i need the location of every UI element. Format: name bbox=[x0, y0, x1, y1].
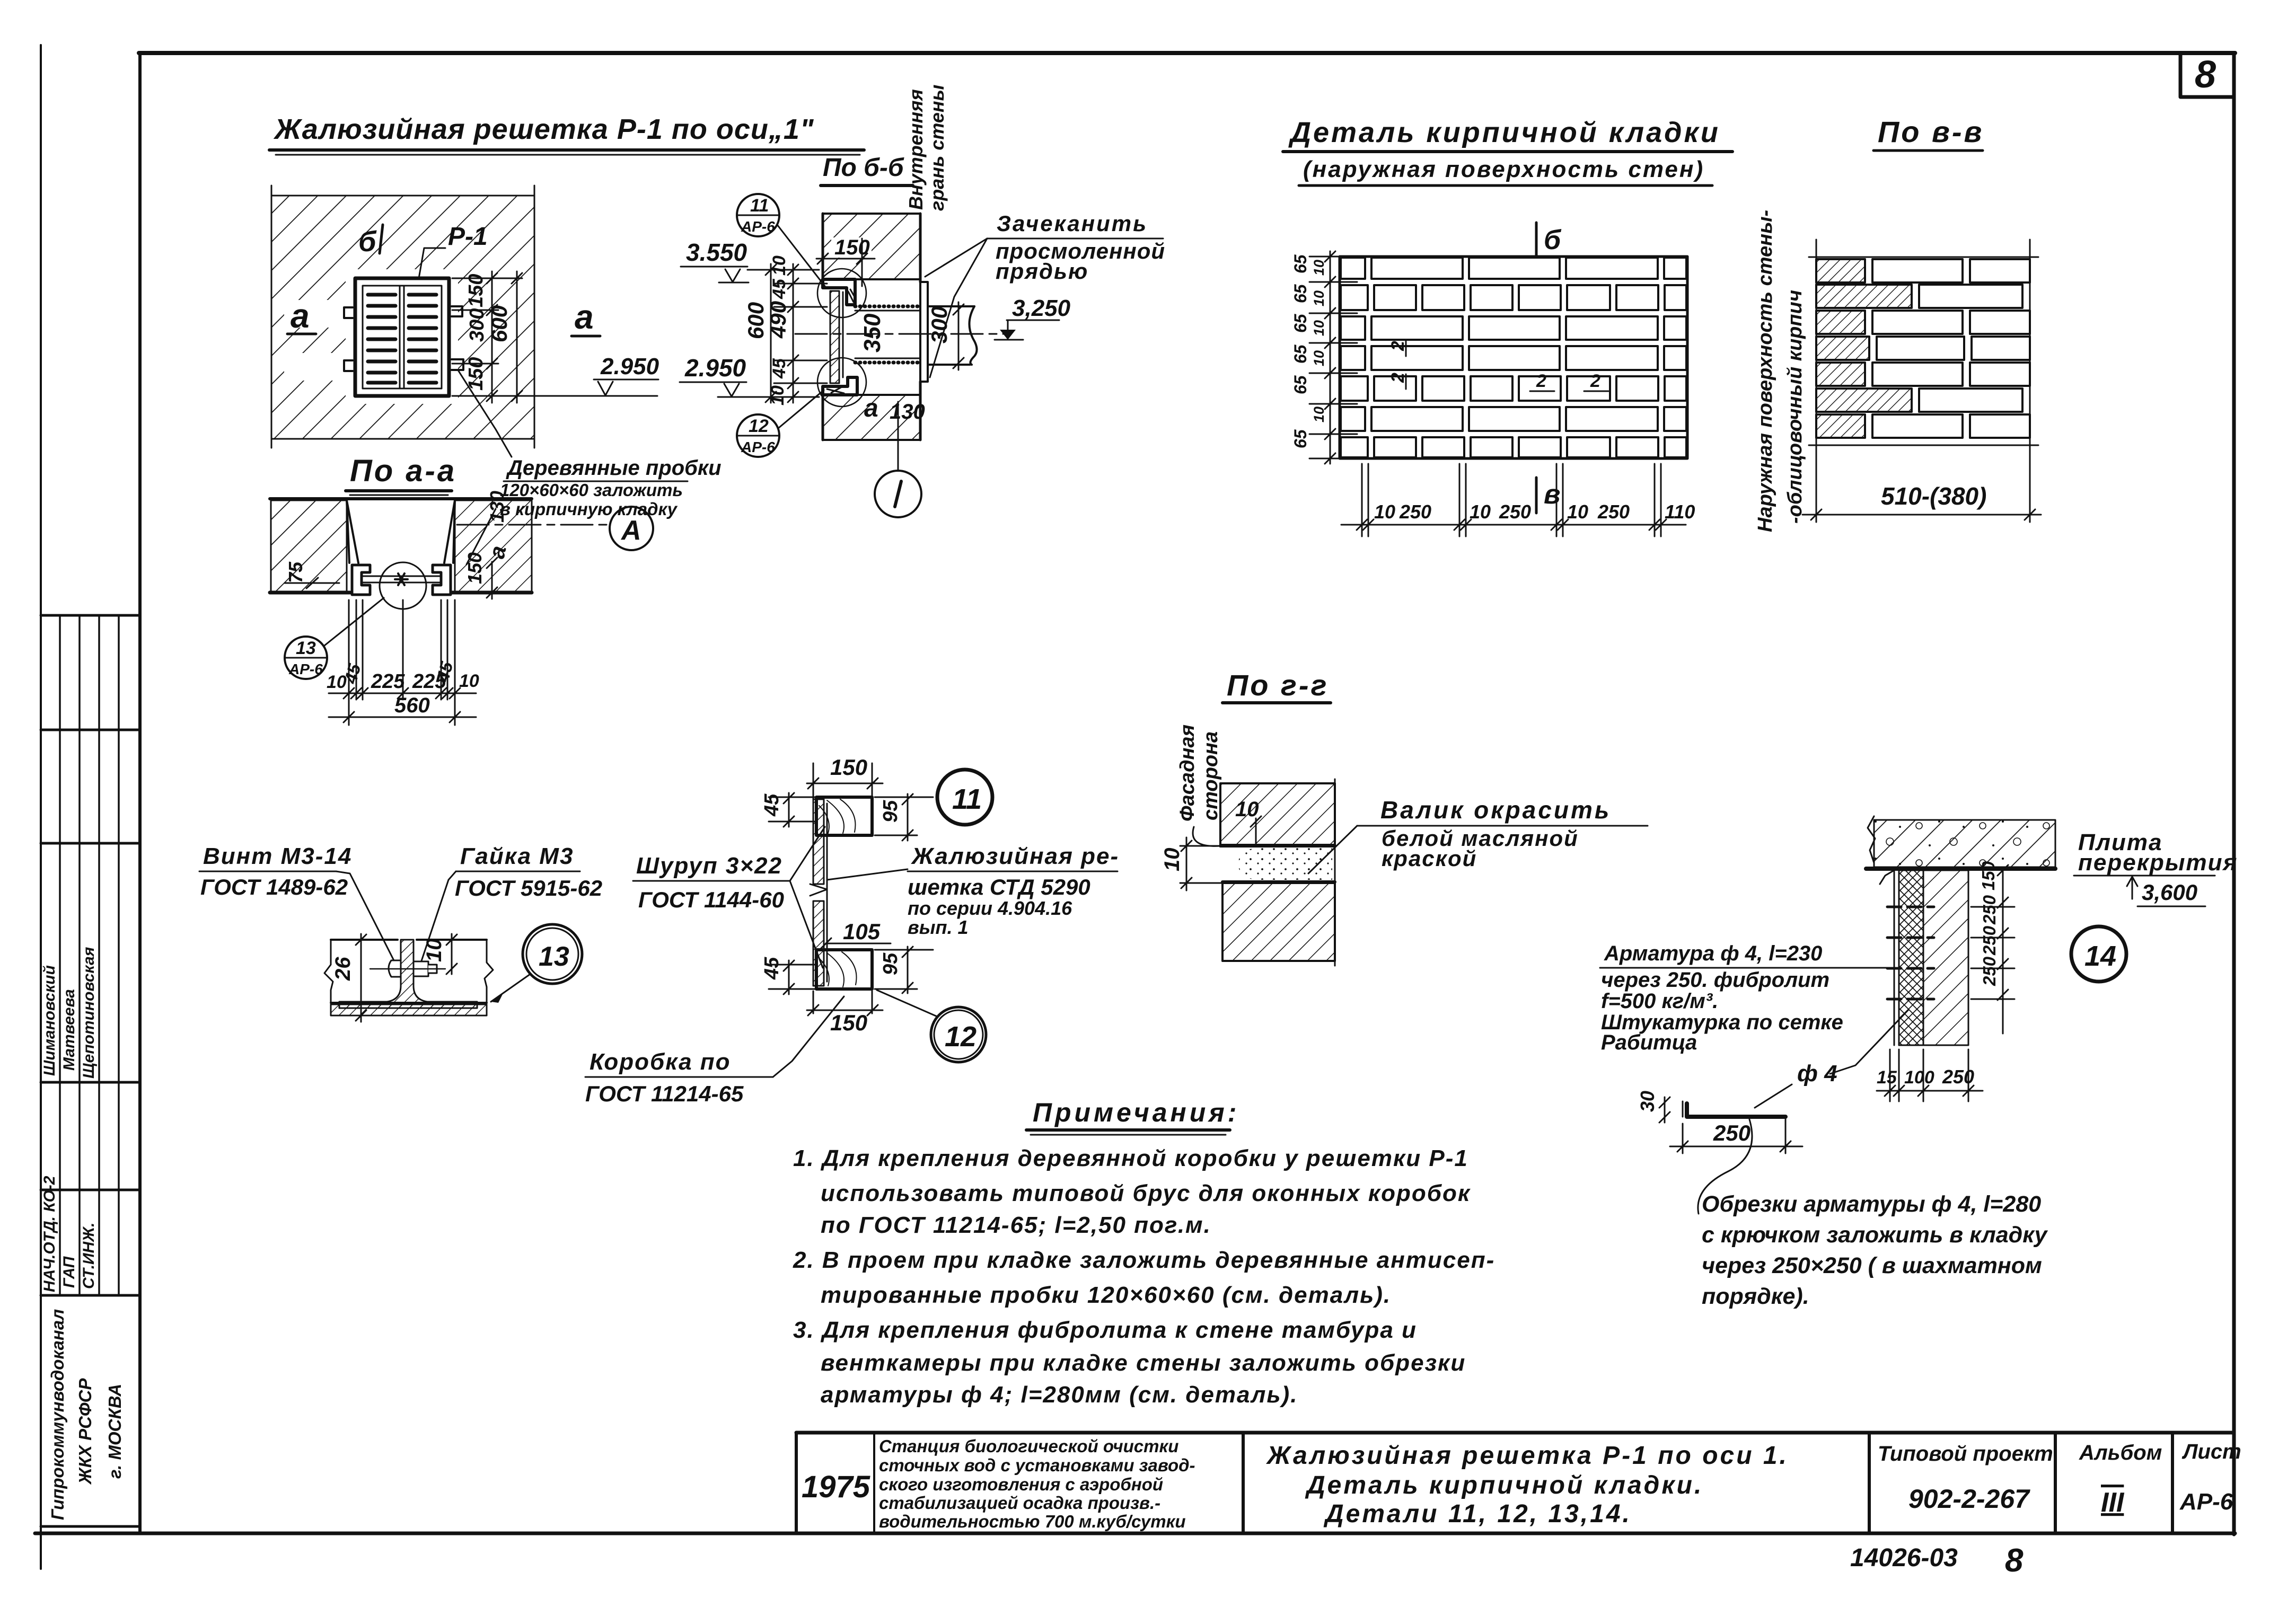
svg-text:30: 30 bbox=[1637, 1091, 1658, 1112]
svg-text:с крючком заложить в кладку: с крючком заложить в кладку bbox=[1702, 1222, 2048, 1248]
grate slat strip bbox=[813, 799, 824, 884]
По в-в top and bottom edges bbox=[1809, 257, 2038, 445]
callout circle А bbox=[610, 507, 653, 550]
svg-text:Шимановский: Шимановский bbox=[41, 965, 58, 1076]
svg-text:65: 65 bbox=[1291, 284, 1310, 303]
wall bottom face lines bbox=[270, 591, 350, 595]
svg-text:3. Для крепления фибролита: 3. Для крепления фибролита к стене тамбу… bbox=[793, 1317, 1417, 1343]
wood block diagonal upper bbox=[848, 289, 855, 302]
svg-text:ЖКХ РСФСР: ЖКХ РСФСР bbox=[75, 1378, 95, 1485]
svg-text:Альбом: Альбом bbox=[2079, 1441, 2162, 1464]
svg-text:По в-в: По в-в bbox=[1878, 115, 1984, 148]
svg-text:250: 250 bbox=[1597, 501, 1630, 523]
stamp grid bbox=[41, 614, 140, 617]
svg-text:10: 10 bbox=[1470, 501, 1491, 523]
svg-text:1. Для крепления деревянной: 1. Для крепления деревянной коробки у ре… bbox=[793, 1145, 1468, 1171]
svg-text:стабилизацией осадка произв.-: стабилизацией осадка произв.- bbox=[879, 1493, 1160, 1513]
svg-text:через 250. фибролит: через 250. фибролит bbox=[1601, 968, 1829, 992]
svg-text:150: 150 bbox=[1978, 861, 1998, 890]
svg-text:г. МОСКВА: г. МОСКВА bbox=[105, 1384, 125, 1479]
svg-text:Жалюзийная ре-: Жалюзийная ре- bbox=[911, 843, 1119, 869]
svg-text:10: 10 bbox=[1374, 501, 1395, 523]
frame left bbox=[138, 53, 142, 1533]
svg-text:Р-1: Р-1 bbox=[448, 223, 488, 251]
pipe stub bbox=[928, 306, 977, 365]
svg-text:45: 45 bbox=[761, 957, 783, 980]
svg-text:10: 10 bbox=[1567, 501, 1588, 523]
svg-text:250: 250 bbox=[1499, 501, 1531, 523]
svg-text:ГОСТ 11214-65: ГОСТ 11214-65 bbox=[585, 1081, 744, 1106]
detail 13 plates bbox=[331, 940, 487, 1003]
svg-text:10: 10 bbox=[1311, 290, 1327, 306]
svg-text:АР-6: АР-6 bbox=[2179, 1489, 2233, 1515]
svg-text:вып. 1: вып. 1 bbox=[908, 916, 969, 938]
svg-text:через 250×250 ( в шахматном: через 250×250 ( в шахматном bbox=[1702, 1253, 2042, 1278]
left box profile bbox=[352, 565, 370, 595]
svg-text:III: III bbox=[2101, 1487, 2125, 1518]
svg-text:100: 100 bbox=[1904, 1067, 1934, 1088]
callout circle 12 bbox=[931, 1007, 986, 1062]
svg-text:10: 10 bbox=[769, 255, 789, 276]
brick type 2 marks bbox=[1388, 341, 1600, 391]
svg-text:105: 105 bbox=[843, 919, 881, 944]
svg-text:10: 10 bbox=[768, 385, 788, 405]
sheet trim line left bbox=[40, 45, 42, 1569]
svg-text:10: 10 bbox=[1311, 407, 1327, 422]
svg-text:ского изготовления с аэробной: ского изготовления с аэробной bbox=[879, 1474, 1163, 1494]
svg-text:3,250: 3,250 bbox=[1012, 295, 1071, 321]
svg-text:По б-б: По б-б bbox=[823, 154, 904, 182]
svg-text:а: а bbox=[864, 394, 878, 422]
right dim chain detail 14 bbox=[1971, 865, 2015, 1034]
svg-text:ГОСТ 5915-62: ГОСТ 5915-62 bbox=[455, 876, 602, 900]
dim 250 hook bbox=[1670, 1119, 1802, 1153]
svg-text:f=500 кг/м³.: f=500 кг/м³. bbox=[1601, 990, 1718, 1013]
svg-text:перекрытия: перекрытия bbox=[2078, 850, 2238, 876]
plan dim chain 150/300/150 bbox=[452, 271, 522, 403]
svg-text:использовать типовой брус: использовать типовой брус для оконных ко… bbox=[821, 1180, 1471, 1206]
svg-text:45: 45 bbox=[769, 358, 789, 379]
svg-text:по серии 4.904.16: по серии 4.904.16 bbox=[908, 897, 1072, 919]
grate slat vertical (hatched) bbox=[830, 291, 839, 383]
tie bars dashes bbox=[1887, 907, 1934, 999]
left dim chain 65/10 bbox=[1309, 251, 1357, 464]
svg-text:2: 2 bbox=[1388, 341, 1408, 351]
svg-text:95: 95 bbox=[879, 952, 902, 975]
svg-text:250: 250 bbox=[1980, 925, 1999, 956]
svg-text:150: 150 bbox=[464, 552, 486, 584]
nut bbox=[414, 961, 428, 976]
По в-в extension verticals bbox=[1816, 240, 2030, 522]
left dim chains По б-б bbox=[746, 264, 827, 403]
svg-text:венткамеры при кладке стены: венткамеры при кладке стены заложить обр… bbox=[821, 1350, 1466, 1376]
asterisk mark bbox=[395, 573, 408, 585]
leaders to screw and nut bbox=[336, 871, 397, 966]
upper C-profile box bbox=[823, 279, 855, 305]
upper wall hatched bbox=[823, 214, 920, 279]
svg-text:сточных вод с установками заво: сточных вод с установками завод- bbox=[879, 1455, 1195, 1475]
svg-text:Фасадная: Фасадная bbox=[1176, 725, 1199, 822]
svg-text:350: 350 bbox=[859, 313, 885, 352]
frame top bbox=[139, 51, 2235, 55]
svg-text:Наружная поверхность стены-: Наружная поверхность стены- bbox=[1754, 210, 1776, 532]
lower C-profile box bbox=[823, 377, 857, 395]
svg-text:65: 65 bbox=[1291, 254, 1310, 273]
svg-text:-облицовочный кирпич: -облицовочный кирпич bbox=[1784, 290, 1806, 524]
По в-в facing hatched bricks left bbox=[1816, 259, 1912, 438]
wall hatched panel bbox=[271, 196, 534, 439]
section mark б top bbox=[1535, 223, 1538, 255]
lower dim chain of По а-а bbox=[329, 600, 476, 725]
svg-text:Гипрокоммунводоканал: Гипрокоммунводоканал bbox=[48, 1309, 67, 1520]
svg-text:Жалюзийная решетка Р-1 по: Жалюзийная решетка Р-1 по оси 1. bbox=[1265, 1442, 1789, 1470]
hook bar detail bbox=[1687, 1103, 1785, 1117]
centerline to А bbox=[457, 524, 609, 526]
svg-text:ГАП: ГАП bbox=[60, 1256, 78, 1288]
svg-text:300: 300 bbox=[927, 306, 952, 343]
grate louver slats bbox=[368, 295, 436, 383]
svg-text:тированные пробки 120×60×6: тированные пробки 120×60×60 (см. деталь)… bbox=[821, 1282, 1391, 1308]
svg-text:сторона: сторона bbox=[1200, 731, 1222, 820]
svg-text:По г-г: По г-г bbox=[1227, 668, 1329, 702]
svg-text:560: 560 bbox=[394, 694, 430, 717]
svg-text:250: 250 bbox=[1713, 1120, 1750, 1145]
svg-text:10: 10 bbox=[1311, 320, 1327, 336]
lower brick г-г bbox=[1222, 883, 1335, 961]
svg-text:АР-6: АР-6 bbox=[741, 218, 775, 235]
dim 150 top По б-б bbox=[831, 237, 872, 258]
svg-text:250: 250 bbox=[1942, 1066, 1974, 1088]
svg-text:2.950: 2.950 bbox=[600, 354, 659, 379]
right box profile bbox=[433, 565, 451, 595]
wall edges bbox=[823, 214, 920, 440]
top wood block bbox=[816, 797, 872, 835]
svg-text:Детали 11, 12, 13,14.: Детали 11, 12, 13,14. bbox=[1323, 1500, 1632, 1528]
svg-text:600: 600 bbox=[487, 305, 512, 342]
svg-text:водительностью 700 м.куб/сутки: водительностью 700 м.куб/сутки bbox=[879, 1512, 1185, 1531]
plan dim 600 bbox=[512, 271, 522, 403]
ceiling slab bbox=[1874, 820, 2055, 867]
svg-text:Деревянные пробки: Деревянные пробки bbox=[506, 456, 722, 480]
svg-text:ГОСТ 1144-60: ГОСТ 1144-60 bbox=[638, 887, 784, 912]
svg-text:прядью: прядью bbox=[996, 259, 1088, 284]
svg-text:Винт М3-14: Винт М3-14 bbox=[203, 843, 352, 869]
callout circle 13/АР-6 bbox=[285, 598, 384, 679]
louver strip in plan section bbox=[362, 576, 441, 582]
svg-text:65: 65 bbox=[1291, 375, 1310, 394]
flange at inner face bbox=[920, 282, 928, 382]
opening reveal slants bbox=[347, 500, 455, 563]
svg-text:250: 250 bbox=[1399, 501, 1431, 523]
svg-text:А: А bbox=[620, 515, 641, 546]
svg-text:краской: краской bbox=[1382, 846, 1477, 871]
svg-text:Рабитца: Рабитца bbox=[1601, 1031, 1697, 1054]
svg-text:(наружная поверхность стен): (наружная поверхность стен) bbox=[1303, 156, 1704, 182]
right pier hatched bbox=[455, 500, 532, 593]
brick elevation outline bbox=[1340, 257, 1687, 458]
svg-text:12: 12 bbox=[749, 416, 769, 436]
svg-text:65: 65 bbox=[1291, 429, 1310, 448]
page number box bbox=[2180, 54, 2234, 97]
callout 11/АР-6 bbox=[737, 194, 825, 286]
svg-text:б: б bbox=[1544, 225, 1562, 255]
frame right bbox=[2232, 53, 2236, 1534]
svg-text:Жалюзийная решетка Р-1 по: Жалюзийная решетка Р-1 по оси„1" bbox=[273, 113, 814, 145]
thick joint edges bbox=[1220, 844, 1335, 847]
svg-text:95: 95 bbox=[879, 800, 902, 823]
bottom dim chain 15/100/250 bbox=[1877, 1049, 1983, 1101]
centerline through bolt bbox=[370, 968, 445, 969]
callout 12/АР-6 bbox=[737, 390, 824, 457]
svg-text:а: а bbox=[575, 298, 594, 336]
svg-text:НАЧ.ОТД. КО-2: НАЧ.ОТД. КО-2 bbox=[41, 1176, 58, 1292]
svg-text:Станция биологической очистки: Станция биологической очистки bbox=[879, 1436, 1178, 1456]
svg-text:65: 65 bbox=[1291, 313, 1310, 333]
svg-text:130: 130 bbox=[890, 400, 925, 423]
svg-text:11: 11 bbox=[750, 196, 769, 216]
svg-text:11: 11 bbox=[952, 783, 982, 815]
svg-text:120×60×60 заложить: 120×60×60 заложить bbox=[500, 480, 683, 500]
corner ticks of plan bbox=[271, 186, 534, 448]
svg-text:45: 45 bbox=[769, 278, 789, 299]
svg-text:8: 8 bbox=[2005, 1542, 2024, 1579]
sleeve lines bbox=[855, 311, 927, 358]
svg-text:Шуруп 3×22: Шуруп 3×22 bbox=[636, 853, 782, 879]
svg-text:13: 13 bbox=[296, 638, 316, 658]
svg-text:порядке).: порядке). bbox=[1702, 1284, 1809, 1309]
plate break marks bbox=[324, 940, 333, 1003]
brick courses bbox=[1341, 258, 1686, 457]
frame bottom bbox=[35, 1532, 2235, 1535]
roller stippled bbox=[1238, 848, 1332, 880]
detail circle around asterisk bbox=[380, 562, 426, 609]
svg-text:26: 26 bbox=[331, 957, 355, 981]
bent seam hatched bbox=[339, 940, 477, 1008]
svg-text:Зачеканить: Зачеканить bbox=[997, 211, 1148, 236]
svg-text:2: 2 bbox=[1536, 371, 1546, 391]
bottom wood block bbox=[816, 950, 872, 989]
svg-text:1975: 1975 bbox=[802, 1470, 870, 1504]
svg-text:а: а bbox=[291, 297, 310, 335]
wall top face line bbox=[270, 497, 532, 500]
lower wall hatched bbox=[823, 395, 920, 440]
svg-text:б: б bbox=[358, 226, 377, 258]
centerline По б-б bbox=[795, 333, 1010, 335]
title block sheet title bbox=[1265, 1442, 1789, 1528]
svg-text:14026-03: 14026-03 bbox=[1850, 1544, 1958, 1572]
svg-text:10: 10 bbox=[459, 671, 479, 691]
svg-text:15: 15 bbox=[1877, 1067, 1897, 1088]
svg-text:250: 250 bbox=[1980, 956, 1999, 986]
svg-text:2: 2 bbox=[1388, 373, 1408, 383]
leaders from шуруп bbox=[777, 827, 825, 881]
upper brick г-г bbox=[1220, 783, 1335, 845]
S-curve leader to обрезки note bbox=[1698, 1119, 1752, 1214]
bottom plate hatched strip bbox=[331, 1004, 487, 1016]
svg-text:2. В проем при кладке зало: 2. В проем при кладке заложить деревянны… bbox=[793, 1247, 1495, 1273]
title block project description bbox=[879, 1436, 1195, 1531]
leader to wooden plugs note bbox=[459, 371, 512, 457]
svg-text:3.550: 3.550 bbox=[686, 239, 747, 266]
grate side clips bbox=[344, 306, 463, 371]
svg-text:600: 600 bbox=[743, 302, 768, 339]
notes text bbox=[793, 1145, 1495, 1408]
svg-text:Примечания:: Примечания: bbox=[1033, 1098, 1239, 1127]
svg-text:10: 10 bbox=[1311, 260, 1327, 276]
svg-text:3,600: 3,600 bbox=[2142, 880, 2197, 905]
callout circle 11 bbox=[937, 770, 992, 825]
svg-text:14: 14 bbox=[2084, 940, 2116, 972]
svg-text:10: 10 bbox=[1235, 798, 1259, 821]
svg-text:2.950: 2.950 bbox=[684, 354, 746, 382]
svg-text:арматуры ф 4; l=280мм (см. д: арматуры ф 4; l=280мм (см. деталь). bbox=[821, 1382, 1298, 1408]
svg-text:Деталь кирпичной кладки.: Деталь кирпичной кладки. bbox=[1305, 1471, 1703, 1499]
svg-text:шетка СТД 5290: шетка СТД 5290 bbox=[908, 875, 1090, 899]
big detail circle 1 bbox=[875, 471, 921, 517]
svg-text:10: 10 bbox=[1160, 848, 1184, 872]
caulking dotted rows bbox=[855, 306, 922, 363]
svg-text:2: 2 bbox=[1590, 371, 1600, 391]
svg-text:150: 150 bbox=[465, 274, 487, 307]
grate Р-1 outer frame bbox=[355, 278, 449, 396]
right extension line г-г bbox=[1334, 779, 1336, 966]
svg-text:10: 10 bbox=[423, 939, 446, 963]
svg-text:Валик окрасить: Валик окрасить bbox=[1380, 796, 1611, 824]
svg-text:12: 12 bbox=[945, 1021, 977, 1053]
svg-text:Лист: Лист bbox=[2181, 1440, 2241, 1463]
svg-text:130: 130 bbox=[486, 491, 508, 523]
svg-text:65: 65 bbox=[1291, 344, 1310, 364]
callout circle 14 bbox=[2071, 926, 2126, 982]
svg-text:225: 225 bbox=[371, 670, 405, 693]
svg-text:13: 13 bbox=[539, 941, 569, 972]
svg-text:грань стены: грань стены bbox=[926, 84, 948, 211]
bottom dim chain 10/250 bbox=[1341, 464, 1686, 536]
detail circle 13 bbox=[523, 924, 582, 984]
svg-text:ГОСТ 1489-62: ГОСТ 1489-62 bbox=[200, 875, 348, 899]
left pier hatched bbox=[271, 500, 347, 593]
svg-text:300: 300 bbox=[466, 308, 488, 342]
svg-text:110: 110 bbox=[1665, 501, 1695, 523]
svg-text:Гайка М3: Гайка М3 bbox=[460, 843, 574, 869]
svg-text:490: 490 bbox=[766, 301, 790, 339]
svg-text:10: 10 bbox=[1311, 350, 1327, 366]
svg-text:СТ.ИНЖ.: СТ.ИНЖ. bbox=[80, 1223, 98, 1289]
svg-text:АР-6: АР-6 bbox=[288, 661, 323, 677]
svg-text:250: 250 bbox=[1980, 895, 1999, 925]
svg-text:75: 75 bbox=[285, 561, 306, 583]
grate center divider bbox=[400, 286, 404, 388]
thin detail circles bbox=[817, 269, 866, 317]
screw head bbox=[389, 960, 401, 977]
svg-text:510-(380): 510-(380) bbox=[1881, 482, 1986, 510]
svg-text:По а-а: По а-а bbox=[350, 454, 456, 488]
level 3.600 bbox=[2127, 877, 2137, 886]
section mark в bottom bbox=[1535, 478, 1538, 513]
svg-text:Щепотиновская: Щепотиновская bbox=[80, 947, 98, 1079]
fibrolite crosshatched bbox=[1899, 870, 1923, 1045]
brick wall hatched bbox=[1923, 870, 1968, 1045]
plaster layers bbox=[1880, 870, 1899, 1045]
По в-в bottom dim 510-(380) bbox=[1802, 509, 2041, 520]
svg-text:Матвеева: Матвеева bbox=[60, 989, 78, 1071]
svg-text:150: 150 bbox=[830, 755, 867, 780]
svg-text:Коробка по: Коробка по bbox=[590, 1049, 731, 1075]
svg-text:АР-6: АР-6 bbox=[741, 439, 775, 455]
svg-text:Внутренняя: Внутренняя bbox=[905, 89, 927, 210]
svg-text:Обрезки арматуры ф 4, l=280: Обрезки арматуры ф 4, l=280 bbox=[1702, 1191, 2041, 1217]
svg-text:Типовой проект: Типовой проект bbox=[1878, 1442, 2053, 1465]
svg-text:8: 8 bbox=[2195, 54, 2216, 96]
svg-text:Арматура ф 4, l=230: Арматура ф 4, l=230 bbox=[1604, 942, 1822, 965]
svg-text:Деталь кирпичной кладки: Деталь кирпичной кладки bbox=[1288, 117, 1720, 148]
svg-text:в: в bbox=[1544, 479, 1560, 510]
По в-в plain bricks right bbox=[1872, 259, 2030, 438]
svg-text:902-2-267: 902-2-267 bbox=[1908, 1484, 2030, 1514]
svg-text:по ГОСТ 11214-65; l=2,50 п: по ГОСТ 11214-65; l=2,50 пог.м. bbox=[821, 1212, 1211, 1238]
grate inner frame bbox=[363, 286, 442, 388]
svg-text:150: 150 bbox=[830, 1010, 867, 1035]
